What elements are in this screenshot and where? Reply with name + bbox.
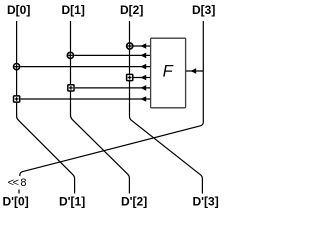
svg-text:8: 8 <box>20 177 26 189</box>
svg-text:D'[0]: D'[0] <box>3 194 29 208</box>
svg-text:D[1]: D[1] <box>62 3 85 17</box>
svg-text:D'[1]: D'[1] <box>59 194 85 208</box>
svg-text:D'[2]: D'[2] <box>121 194 147 208</box>
svg-text:F: F <box>163 62 174 80</box>
svg-text:D[2]: D[2] <box>120 3 143 17</box>
svg-text:D'[3]: D'[3] <box>193 194 219 208</box>
svg-text:<<: << <box>8 177 19 189</box>
svg-text:D[0]: D[0] <box>7 3 30 17</box>
svg-text:D[3]: D[3] <box>192 3 215 17</box>
